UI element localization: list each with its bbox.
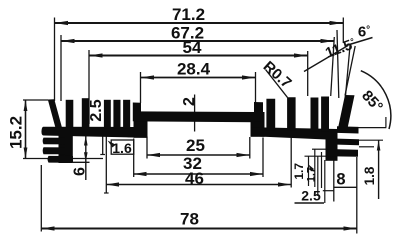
dimension line 2 [194, 95, 196, 132]
extension line 25 left [146, 137, 148, 159]
arrow 32 left [134, 172, 147, 176]
1.8 dimension line [378, 140, 380, 199]
extension line 28.4 left [140, 72, 142, 103]
right detail line L3 [317, 156, 319, 196]
bridge plate [135, 111, 265, 122]
arrow 71.2 left [55, 21, 69, 25]
right detail line L4 [321, 152, 323, 188]
left fin mid2 [43, 147, 65, 154]
arrow 1.8 up [377, 140, 381, 150]
8 box bottom [334, 186, 357, 188]
left bottom fin [48, 156, 73, 163]
extension line 1.6 left slot [102, 136, 104, 155]
extension line 15.2 bottom [23, 158, 103, 160]
small horizontal 190.7 [323, 190, 334, 192]
85 degree arc [361, 71, 391, 129]
arrow 78 right [344, 226, 357, 230]
arrow 28.4 right [242, 75, 256, 79]
2.5 underline [295, 202, 325, 204]
extension line 67.2 left [60, 35, 62, 101]
svg-text:2: 2 [181, 97, 198, 106]
dimension line 25 [147, 154, 250, 156]
extension line 32 left [133, 139, 135, 178]
fin r4 [311, 98, 319, 132]
arrow 6 down [84, 152, 88, 162]
fin r1 bump [254, 102, 263, 122]
svg-text:2.5: 2.5 [88, 99, 105, 121]
arrow 67.2 left [61, 39, 75, 43]
arrow 71.2 right [330, 21, 344, 25]
svg-text:71.2: 71.2 [172, 5, 205, 24]
right mid fin [337, 139, 359, 146]
right wall [326, 130, 338, 161]
arrow 28.4 left [141, 75, 155, 79]
extension line 46 right [290, 138, 292, 188]
svg-text:54: 54 [183, 38, 202, 57]
dimension line 54 [89, 55, 308, 57]
extension line 25 right [249, 137, 251, 159]
1.6 label box [111, 140, 134, 154]
dimension line 6 left [85, 135, 87, 180]
right detail line L1 [308, 156, 310, 186]
right top fin [337, 126, 359, 133]
extension line 6 bottom [73, 161, 90, 163]
svg-text:1.8: 1.8 [362, 166, 377, 185]
svg-text:6: 6 [72, 167, 89, 176]
vertical 325.8 [324, 160, 326, 203]
arrow 1.7 leader [309, 165, 315, 172]
extension line 67.2 right [331, 37, 335, 96]
right detail tick mid [305, 155, 326, 157]
dimension line 28.4 [141, 77, 256, 79]
svg-text:15.2: 15.2 [7, 116, 26, 149]
svg-text:25: 25 [186, 136, 205, 155]
base right [251, 127, 338, 140]
extension line 28.4 right [255, 72, 257, 103]
arrow 46 right [278, 182, 291, 186]
arrow 54 left [89, 53, 103, 57]
dimension line 46 [106, 184, 291, 186]
svg-text:1.7: 1.7 [306, 167, 318, 182]
arrow 25 left [147, 153, 160, 157]
extension line 54 left [88, 50, 90, 124]
1.8 ext low [359, 146, 374, 148]
fin f3 [82, 98, 90, 127]
right detail line L2 [314, 150, 316, 188]
extension line 32 right [262, 138, 264, 178]
arrow 1.6 leader [108, 141, 116, 148]
fin r6 slanted [338, 95, 355, 131]
fin f5 [113, 100, 120, 129]
extension line 78 left [40, 165, 42, 232]
arrow 78 left [41, 226, 54, 230]
fin f2 [66, 100, 74, 128]
bump left on bridge / fin f7 [133, 103, 141, 122]
dimension line 32 [134, 173, 264, 175]
serif tick 46 left bottom [104, 192, 109, 194]
arrow 54 right [294, 53, 308, 57]
extension line 54 right [307, 51, 309, 96]
fin r3 [287, 97, 296, 131]
fin f1 slanted [48, 99, 62, 127]
fin f4 [104, 100, 111, 129]
dimension line 11.5 slanted [304, 46, 348, 72]
8 box left [333, 159, 335, 202]
arrow 67.2 right [321, 39, 335, 43]
vertical datum line 6deg [337, 30, 339, 98]
fin r5 [321, 97, 329, 132]
svg-text:28.4: 28.4 [177, 60, 211, 79]
6 degree T bar [346, 38, 372, 46]
6 degree slanted extension right [345, 46, 355, 96]
arrow 46 left [106, 182, 119, 186]
fin r2 [266, 99, 275, 131]
extension line 6 top [76, 134, 90, 136]
6 degree slanted extension left [345, 46, 350, 98]
1.8 ext mid [358, 139, 383, 141]
heatsink profile black silhouette [41, 95, 359, 163]
labels [171, 5, 211, 229]
serif tick slot left [100, 154, 105, 156]
dimension line 67.2 [61, 40, 334, 42]
right shoulder [251, 122, 265, 137]
arrow 6 up [84, 135, 88, 145]
dimension line 71.2 [55, 22, 344, 24]
svg-text:78: 78 [180, 210, 199, 229]
right bottom fin [328, 149, 358, 157]
extension line 71.2 right [342, 18, 344, 44]
svg-text:2.5: 2.5 [301, 188, 321, 204]
dimension line 15.2 [25, 100, 27, 159]
svg-text:46: 46 [185, 169, 204, 188]
fin f6 [123, 100, 130, 129]
dimension line 78 [41, 228, 356, 230]
extension line 71.2 left [54, 18, 56, 102]
left shoulder [134, 121, 148, 138]
svg-text:1.6: 1.6 [112, 140, 132, 156]
R0.7 leader [266, 70, 288, 98]
arrow 15.2 down [24, 148, 28, 159]
1.8 ext upright [385, 117, 387, 128]
left wall [59, 135, 73, 163]
base left [41, 127, 147, 138]
arrow 32 right [250, 172, 263, 176]
arrow 25 right [237, 153, 250, 157]
right detail tick top [312, 148, 326, 150]
svg-text:8: 8 [336, 171, 345, 189]
extension line 15.2 top [23, 99, 48, 101]
svg-text:1.7: 1.7 [292, 163, 306, 180]
extension line 78 right [356, 157, 358, 234]
arrow 15.2 up [24, 100, 28, 111]
left fin mid1 [43, 138, 65, 145]
extension line 46 left and 1.6 right [105, 137, 107, 194]
1.8 ext top [357, 127, 386, 129]
